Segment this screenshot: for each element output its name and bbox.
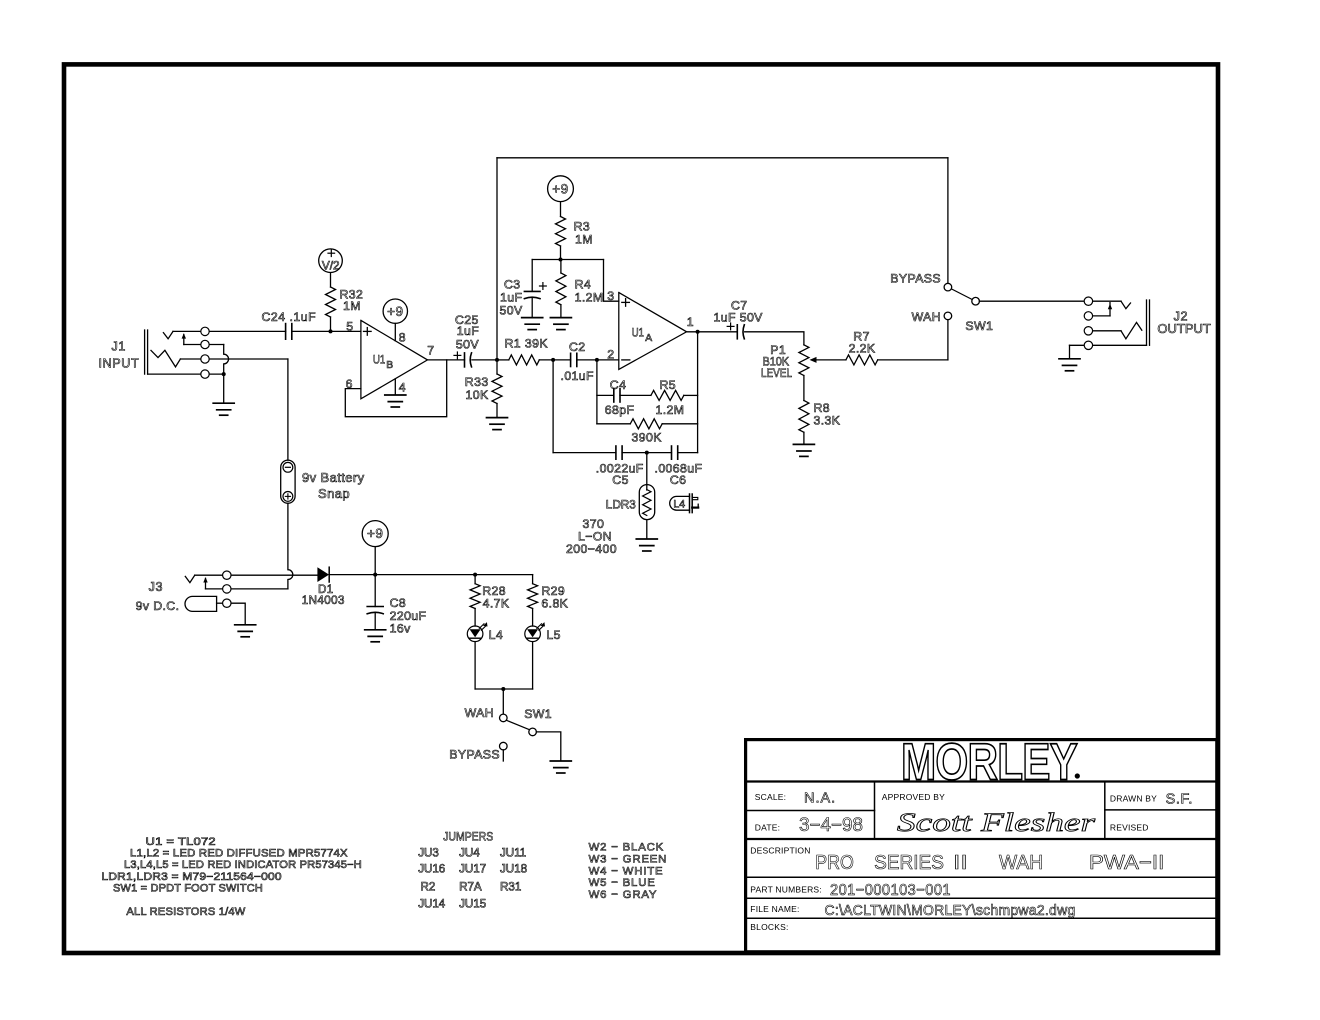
svg-text:200−400: 200−400 — [566, 542, 617, 556]
capacitor C7 — [727, 325, 734, 327]
node R28 junction — [473, 573, 477, 577]
svg-text:JU16: JU16 — [418, 862, 445, 875]
wire J3 tip to D1 — [195, 574, 318, 576]
svg-text:4: 4 — [399, 381, 406, 395]
svg-text:FILE NAME:: FILE NAME: — [750, 904, 799, 914]
node R32/C24 junction — [329, 329, 333, 333]
svg-text:SERIES: SERIES — [874, 852, 944, 874]
node J1 sleeve junction — [222, 372, 226, 376]
svg-text:C4: C4 — [610, 378, 627, 392]
svg-text:MORLEY: MORLEY — [901, 734, 1077, 792]
resistor R28 — [474, 575, 476, 584]
node pin2 rail B junction — [595, 358, 599, 362]
wire battery to J3 (hop over D1 wire) — [288, 503, 293, 589]
svg-text:WAH: WAH — [465, 706, 494, 720]
photoresistor LDR3 — [639, 485, 654, 520]
wire R7 to SW1 wah — [878, 359, 948, 361]
svg-text:SCALE:: SCALE: — [755, 792, 786, 802]
power +9 supply node — [362, 521, 388, 547]
svg-text:L4: L4 — [673, 499, 685, 511]
svg-text:9v D.C.: 9v D.C. — [136, 599, 180, 613]
wire P1 to R8 — [803, 376, 805, 401]
jack J1 switch arrow — [183, 335, 185, 345]
svg-text:5: 5 — [346, 320, 353, 334]
ground C3 — [522, 317, 543, 319]
svg-text:APPROVED BY: APPROVED BY — [882, 792, 945, 802]
wire J2 sleeve to ground — [1069, 345, 1071, 358]
svg-text:C8: C8 — [390, 596, 407, 610]
svg-text:JU3: JU3 — [418, 846, 439, 859]
wire J1 ring down to battery — [287, 359, 289, 460]
wire J1 sleeve — [148, 373, 224, 375]
ground U1B pin4 — [385, 394, 406, 396]
node U1B output junction — [495, 358, 499, 362]
svg-text:II: II — [953, 852, 968, 874]
wire U1B output — [428, 359, 465, 361]
power +9 for R3 — [548, 176, 574, 202]
power symbol V/2 — [319, 249, 343, 273]
svg-text:U1: U1 — [373, 353, 385, 367]
wire rail down to bypass — [947, 158, 949, 287]
svg-text:50V: 50V — [456, 338, 479, 352]
wire U1A output — [687, 331, 738, 333]
capacitor C3 — [524, 290, 540, 292]
svg-text:SW1: SW1 — [524, 707, 552, 721]
svg-text:JU4: JU4 — [459, 846, 480, 859]
svg-text:SW1: SW1 — [965, 319, 993, 333]
svg-text:J3: J3 — [149, 580, 164, 594]
svg-text:DRAWN BY: DRAWN BY — [1110, 794, 1157, 804]
wire top rail — [497, 157, 948, 159]
capacitor C6 — [671, 446, 673, 459]
svg-text:C5: C5 — [612, 473, 629, 487]
capacitor C25 — [454, 354, 461, 356]
svg-text:R3: R3 — [574, 220, 591, 234]
wire J1 sleeve to ground — [223, 374, 225, 403]
wire C2 to U1A pin2 — [577, 359, 619, 361]
wire J1 ring to battery — [180, 358, 288, 360]
svg-text:3−4−98: 3−4−98 — [799, 815, 863, 836]
svg-text:1: 1 — [687, 315, 694, 329]
svg-text:L1,L2 = LED RED DIFFUSED: L1,L2 = LED RED DIFFUSED MPR5774X — [130, 848, 348, 860]
svg-text:LDR1,LDR3 = M79−211564−000: LDR1,LDR3 = M79−211564−000 — [101, 871, 281, 883]
svg-text:ALL RESISTORS 1/4W: ALL RESISTORS 1/4W — [126, 906, 246, 918]
jack J3 switch arrow — [205, 578, 207, 589]
wire LDR3 to ground — [646, 520, 648, 539]
svg-text:R2: R2 — [421, 881, 436, 894]
svg-text:S.F.: S.F. — [1166, 792, 1193, 808]
jack J2 contact pins — [1084, 297, 1092, 305]
wire D1 to LEDs rail — [329, 574, 532, 576]
capacitor C24 — [285, 324, 287, 340]
svg-text:U1 = TL072: U1 = TL072 — [146, 836, 216, 848]
svg-text:Snap: Snap — [318, 486, 350, 501]
wire J2 pin2 — [1093, 315, 1110, 317]
jack J3 barrel — [185, 596, 217, 611]
LED L5 — [525, 626, 541, 642]
svg-text:+9: +9 — [387, 304, 403, 319]
svg-text:WAH: WAH — [999, 852, 1043, 874]
svg-text:BYPASS: BYPASS — [449, 748, 500, 762]
wire C3 to ground — [531, 298, 533, 317]
ground LDR3 — [636, 538, 657, 540]
svg-text:1.2M: 1.2M — [656, 403, 685, 417]
battery snap — [281, 460, 295, 503]
svg-text:C:\ACLTWIN\MORLEY\schmpwa2.dwg: C:\ACLTWIN\MORLEY\schmpwa2.dwg — [825, 902, 1076, 919]
node U1A output junction — [696, 330, 700, 334]
switch SW1 (top section) — [951, 289, 972, 300]
svg-text:8: 8 — [399, 330, 406, 344]
svg-text:LDR3: LDR3 — [606, 498, 636, 512]
svg-text:6.8K: 6.8K — [541, 597, 568, 611]
diode D1 — [317, 567, 329, 582]
lamp L4 (optocoupler lamp) — [670, 496, 690, 510]
svg-text:REVISED: REVISED — [1110, 823, 1149, 833]
resistor R32 — [330, 273, 332, 287]
svg-text:R5: R5 — [660, 378, 677, 392]
svg-text:L5: L5 — [546, 628, 560, 642]
svg-text:JU11: JU11 — [500, 846, 526, 859]
svg-text:N.A.: N.A. — [804, 791, 836, 807]
wire J3 pin2 to battery — [206, 588, 288, 590]
ground J1 — [213, 402, 234, 404]
wire SW1 pole to J2 — [979, 300, 1088, 302]
wire feedback row1 — [597, 394, 614, 396]
wire pin4 to ground — [394, 379, 396, 395]
node C8 junction — [373, 573, 377, 577]
capacitor C2 — [570, 353, 572, 366]
wire C25 to node — [472, 359, 497, 361]
svg-text:16v: 16v — [390, 622, 411, 636]
wire R8 to ground — [803, 432, 805, 444]
svg-text:PRO: PRO — [815, 852, 854, 874]
svg-text:PWA−II: PWA−II — [1089, 852, 1164, 874]
resistor R6 390K — [630, 419, 662, 429]
wire LED cathode rail — [475, 688, 532, 690]
svg-text:1uF: 1uF — [457, 324, 479, 338]
svg-text:SW1 = DPDT FOOT SWITCH: SW1 = DPDT FOOT SWITCH — [113, 882, 263, 894]
svg-text:DATE:: DATE: — [755, 823, 780, 833]
svg-text:Scott Flesher: Scott Flesher — [897, 808, 1096, 837]
svg-text:+9: +9 — [552, 181, 568, 196]
wire feedback row2 — [597, 423, 630, 425]
switch SW1 (bottom section) — [506, 720, 530, 730]
LED L4 — [467, 626, 483, 642]
node pin2 rail A junction — [551, 358, 555, 362]
jack J2 tip contact — [1093, 300, 1121, 302]
resistor R7 — [846, 355, 878, 365]
ground J2 — [1059, 358, 1080, 360]
svg-text:C6: C6 — [670, 473, 687, 487]
node R3/R4 junction — [559, 258, 563, 262]
svg-text:JU18: JU18 — [500, 862, 527, 875]
svg-text:R1 39K: R1 39K — [505, 337, 549, 351]
svg-text:50V: 50V — [500, 303, 523, 317]
wire J1 pin2 to sleeve (hop over ring wire) — [224, 345, 229, 375]
svg-text:9v Battery: 9v Battery — [302, 470, 365, 485]
power +9 for U1B — [383, 299, 407, 323]
resistor R3 — [560, 202, 562, 217]
svg-text:2: 2 — [607, 348, 614, 362]
wire bias node — [532, 259, 603, 261]
ground R33 — [487, 417, 508, 419]
capacitor C4 — [613, 389, 615, 402]
svg-text:7: 7 — [427, 344, 434, 358]
potentiometer P1 — [799, 345, 809, 376]
svg-text:BLOCKS:: BLOCKS: — [750, 922, 788, 932]
wire J1 pin2 — [184, 344, 224, 346]
wire feedback row3 — [553, 452, 616, 454]
resistor R5 — [651, 390, 684, 400]
wire to LDR3 — [646, 453, 648, 490]
svg-text:1N4003: 1N4003 — [302, 594, 345, 607]
wire feedback right rail — [697, 332, 699, 453]
wire bias to U1A pin3 — [604, 260, 619, 302]
title block — [746, 740, 1217, 952]
wire J2 sleeve — [1070, 344, 1147, 346]
svg-text:2.2K: 2.2K — [849, 341, 876, 355]
op-amp U1A — [619, 293, 687, 370]
P1 wiper arrow — [814, 359, 846, 361]
svg-text:R33: R33 — [465, 375, 489, 389]
svg-text:W6 − GRAY: W6 − GRAY — [589, 889, 658, 901]
svg-text:JU17: JU17 — [459, 862, 486, 875]
jack J1 ring contact — [151, 350, 180, 367]
node LED rail junction — [501, 687, 505, 691]
jack J1 tip contact — [163, 331, 173, 338]
svg-text:1M: 1M — [575, 233, 593, 247]
svg-text:J1: J1 — [112, 340, 127, 354]
resistor R8 — [799, 401, 809, 433]
svg-text:A: A — [645, 333, 652, 344]
resistor R4 — [560, 260, 562, 274]
jack J1 contact pins — [201, 327, 209, 335]
op-amp U1B — [361, 320, 428, 398]
border frame — [64, 64, 1218, 953]
svg-text:390K: 390K — [632, 431, 663, 445]
wire U1B feedback pin6 to output — [345, 360, 446, 417]
wire pin8 to +9 — [394, 323, 396, 340]
svg-text:C24 .1uF: C24 .1uF — [262, 310, 317, 324]
wire left rail A — [552, 360, 554, 453]
ground R8 — [793, 443, 814, 445]
jack J1 body — [144, 330, 146, 374]
ground J3 — [235, 624, 256, 626]
jack J2 switch arrow — [1109, 303, 1111, 316]
svg-text:JUMPERS: JUMPERS — [443, 830, 493, 844]
jack J2 ring contact — [1093, 330, 1121, 332]
node C5/C6 junction — [645, 451, 649, 455]
jack J2 body — [1146, 300, 1148, 345]
wire C24 to U1B pin5 — [292, 330, 361, 332]
resistor R33 — [496, 360, 498, 374]
wire J1 tip to C24 — [173, 330, 286, 332]
svg-text:3.3K: 3.3K — [814, 414, 841, 428]
ground SW1 — [550, 760, 571, 762]
wire C7 to P1 — [745, 332, 804, 345]
resistor R29 — [532, 575, 534, 584]
svg-text:C2: C2 — [569, 340, 586, 354]
svg-text:INPUT: INPUT — [99, 357, 140, 371]
wire to C3 — [531, 260, 533, 292]
wire J3 sleeve to ground — [231, 603, 245, 624]
svg-text:4.7K: 4.7K — [483, 597, 510, 611]
svg-text:1M: 1M — [343, 299, 361, 313]
wire R1 to C2 — [539, 359, 570, 361]
svg-text:L4: L4 — [489, 628, 503, 642]
svg-text:U1: U1 — [632, 325, 644, 339]
svg-text:PART NUMBERS:: PART NUMBERS: — [750, 884, 822, 894]
svg-text:JU14: JU14 — [418, 898, 446, 911]
svg-text:1.2M: 1.2M — [575, 290, 604, 304]
capacitor C5 — [615, 446, 617, 459]
svg-text:10K: 10K — [466, 388, 489, 402]
svg-text:LEVEL: LEVEL — [761, 366, 792, 380]
svg-text:WAH: WAH — [912, 310, 941, 324]
ground R4 — [550, 317, 571, 319]
svg-text:W5 − BLUE: W5 − BLUE — [589, 877, 656, 889]
wire to SW1 wah (bottom) — [502, 689, 504, 714]
jack J3 contact pins — [223, 571, 231, 579]
svg-text:.01uF: .01uF — [561, 369, 595, 383]
resistor R1 — [497, 359, 509, 361]
svg-text:B: B — [386, 360, 393, 371]
svg-text:L3,L4,L5 = LED RED INDICAT: L3,L4,L5 = LED RED INDICATOR PR57345−H — [124, 859, 362, 871]
jack J3 tip contact — [185, 575, 195, 582]
svg-text:1uF 50V: 1uF 50V — [714, 311, 764, 325]
svg-text:DESCRIPTION: DESCRIPTION — [750, 845, 810, 855]
svg-text:JU15: JU15 — [459, 898, 486, 911]
svg-text:R7A: R7A — [459, 881, 482, 894]
ground C8 — [365, 629, 386, 631]
svg-text:1uF: 1uF — [500, 290, 522, 304]
svg-text:68pF: 68pF — [605, 403, 635, 417]
svg-text:W3 − GREEN: W3 − GREEN — [589, 853, 668, 865]
wire rail up from node — [496, 158, 498, 360]
svg-text:R31: R31 — [500, 881, 521, 894]
svg-text:201−000103−001: 201−000103−001 — [830, 882, 951, 899]
svg-text:W4 − WHITE: W4 − WHITE — [589, 865, 664, 877]
capacitor C8 — [374, 575, 376, 607]
svg-text:OUTPUT: OUTPUT — [1157, 322, 1211, 336]
svg-text:W2 − BLACK: W2 − BLACK — [589, 842, 664, 854]
wire left rail B — [596, 360, 598, 424]
svg-text:BYPASS: BYPASS — [890, 272, 941, 286]
wire SW1 pole to ground — [536, 732, 560, 761]
svg-text:+9: +9 — [367, 526, 383, 541]
svg-text:V/2: V/2 — [322, 258, 340, 272]
